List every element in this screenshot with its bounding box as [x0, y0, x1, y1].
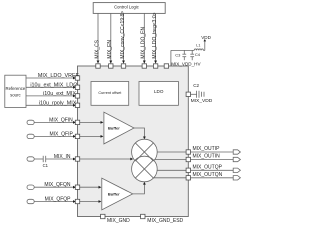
svg-text:MIX_LDO_VREF: MIX_LDO_VREF — [38, 73, 80, 79]
svg-text:MIX_EN: MIX_EN — [107, 40, 113, 59]
svg-text:sourc: sourc — [10, 92, 21, 97]
svg-text:MIX_QFIN: MIX_QFIN — [49, 117, 73, 123]
svg-text:MIX_CS: MIX_CS — [94, 39, 100, 58]
svg-text:MIX_QFQP: MIX_QFQP — [45, 197, 72, 203]
svg-text:i10u_ext_MIX_LDO: i10u_ext_MIX_LDO — [30, 83, 77, 89]
svg-text:i10u_rpoly_MIX: i10u_rpoly_MIX — [39, 101, 77, 107]
svg-text:Current offset: Current offset — [98, 91, 122, 95]
svg-text:MIX_LDO_EN: MIX_LDO_EN — [141, 27, 147, 59]
svg-text:C1: C1 — [43, 163, 49, 168]
svg-text:MIX_GND_ESD: MIX_GND_ESD — [147, 218, 183, 224]
svg-text:LDO: LDO — [154, 89, 164, 94]
svg-text:MIX_LDO_treg<3:0>: MIX_LDO_treg<3:0> — [152, 12, 158, 58]
svg-text:C2: C2 — [193, 83, 199, 88]
svg-text:MIX_OUTQN: MIX_OUTQN — [193, 172, 223, 178]
svg-text:MIX_QFIP: MIX_QFIP — [49, 131, 73, 137]
svg-text:L1: L1 — [196, 43, 200, 47]
svg-text:i10u_ext_MIX: i10u_ext_MIX — [43, 91, 76, 97]
svg-text:MIX_GND: MIX_GND — [107, 218, 130, 224]
svg-text:MIX_QFQN: MIX_QFQN — [44, 182, 71, 188]
svg-text:C3: C3 — [175, 52, 181, 57]
svg-text:Control Logic: Control Logic — [114, 4, 139, 9]
svg-text:Buffer: Buffer — [108, 191, 120, 196]
svg-text:C4: C4 — [195, 52, 201, 57]
svg-text:MIX_OUTIP: MIX_OUTIP — [193, 146, 221, 152]
svg-text:VDD: VDD — [201, 35, 211, 40]
svg-text:MIX_VDD: MIX_VDD — [191, 98, 213, 104]
svg-text:Reference: Reference — [5, 86, 25, 91]
svg-text:MIX_IN: MIX_IN — [54, 154, 71, 160]
svg-text:MIX_OUTIN: MIX_OUTIN — [193, 154, 221, 160]
svg-text:MIX_VDD_HV: MIX_VDD_HV — [171, 61, 201, 66]
svg-text:MIX_OUTQP: MIX_OUTQP — [193, 164, 223, 170]
svg-text:MIX_conv_CC<19:8>: MIX_conv_CC<19:8> — [120, 11, 126, 59]
svg-text:Buffer: Buffer — [108, 126, 120, 131]
